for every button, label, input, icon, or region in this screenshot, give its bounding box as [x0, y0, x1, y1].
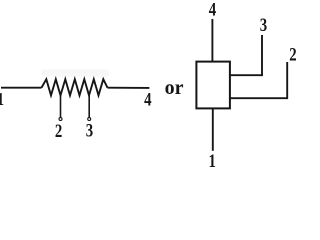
svg-text:1: 1: [0, 91, 4, 110]
svg-text:4: 4: [144, 89, 152, 110]
wire: box pin 2 horizontal segment: [229, 97, 287, 99]
wire: tap 3 lead: [88, 95, 90, 117]
wire: left lead of resistor (pin 1): [1, 87, 42, 89]
faint watermark band: [41, 70, 109, 77]
wire: box bottom pin 1: [212, 108, 214, 150]
wire: box pin 3 vertical segment: [261, 35, 263, 76]
svg-text:2: 2: [55, 120, 62, 141]
wire: right lead of resistor (pin 4): [108, 87, 150, 89]
svg-text:3: 3: [260, 14, 267, 35]
svg-text:2: 2: [289, 44, 296, 65]
wire: box pin 3 horizontal segment: [229, 74, 262, 76]
resistor zigzag body: [42, 79, 108, 95]
svg-text:or: or: [165, 77, 184, 99]
svg-text:4: 4: [209, 0, 217, 20]
wire: box top pin 4: [211, 19, 213, 62]
box symbol (alternate resistor representation): [196, 62, 230, 109]
terminal circle tap 3: [88, 118, 91, 121]
svg-text:1: 1: [208, 150, 215, 167]
wire: tap 2 lead: [60, 95, 62, 117]
svg-text:3: 3: [86, 120, 93, 141]
terminal circle tap 2: [59, 118, 62, 121]
wire: box pin 2 vertical segment: [286, 62, 288, 99]
